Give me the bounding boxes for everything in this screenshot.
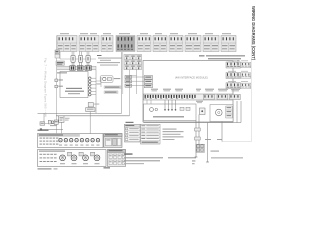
wire (195, 121, 197, 158)
notes heading (124, 153, 133, 154)
fan motor M1 (51, 121, 54, 124)
label (97, 83, 102, 86)
thermostat terminal (168, 100, 170, 109)
terminal T1 (89, 77, 92, 80)
transformer box (210, 105, 233, 122)
legend table (125, 124, 141, 142)
note block (97, 55, 102, 56)
note line 2 (168, 157, 196, 158)
receptacle J2 (77, 66, 83, 71)
terminal T6 (89, 93, 92, 96)
wire (240, 101, 242, 123)
line-voltage terminal board TB5 (38, 150, 107, 167)
relay cells (226, 106, 233, 118)
svg-text:Fig. 7 — Wiring Diagram Types: Fig. 7 — Wiring Diagram Types 560 – 4W (44, 58, 48, 117)
connector block PL1 (57, 36, 77, 52)
connector block PL3 (101, 36, 113, 52)
module input port 2 (144, 80, 152, 84)
wire (41, 129, 64, 131)
wire (122, 52, 124, 94)
accessory block (104, 134, 122, 148)
terminal block TB1 (55, 50, 59, 54)
wire bus vertical (95, 70, 97, 113)
connector row CN1 (226, 62, 241, 68)
terminal group (230, 94, 241, 99)
outdoor unit label (66, 88, 82, 89)
connector block PL7 (169, 36, 183, 52)
wire (89, 112, 91, 134)
fuse block F1 (68, 152, 72, 156)
wire (130, 75, 137, 77)
note tag (104, 167, 111, 168)
note text (199, 55, 205, 56)
relay coil K1 (125, 76, 132, 79)
connector block PL10 (221, 36, 236, 52)
fuse block F2 (79, 152, 83, 156)
svg-text:(4W INTERFACE MODULE): (4W INTERFACE MODULE) (175, 75, 208, 79)
inline plug (195, 137, 201, 140)
ground strap marks (192, 160, 195, 163)
module input port 3 (144, 84, 152, 88)
screw terminal 4 (75, 139, 78, 142)
receptacle J3 (85, 66, 91, 71)
defrost relay DR (100, 76, 113, 83)
4W interface module box U1 (143, 61, 233, 123)
contactor terminal 1 (60, 155, 66, 161)
note line 3 (211, 156, 243, 159)
wire code note (163, 128, 177, 131)
transformer TRAN (216, 109, 223, 116)
receptacle J1 (70, 66, 75, 71)
field power wire (38, 112, 122, 114)
screw terminal 3 (70, 139, 73, 142)
wire (60, 130, 62, 134)
low-voltage harness bus (57, 66, 96, 70)
diagram frame bottom-right edge (222, 141, 252, 143)
contactor terminal 4 (94, 155, 100, 161)
screw terminal 5 (80, 139, 83, 142)
label defrost timer (104, 91, 118, 94)
thermostat sensor (155, 108, 158, 111)
board cell labels 2 (40, 154, 43, 155)
outdoor unit enclosure (60, 72, 88, 98)
label (196, 100, 203, 103)
wire label (211, 150, 220, 153)
note tag left (38, 168, 52, 169)
thermostat terminal (164, 100, 166, 109)
aux contacts (180, 107, 184, 110)
svg-text:WIRING DIAGRAMS (CONT): WIRING DIAGRAMS (CONT) (251, 6, 256, 61)
strip labels (151, 89, 158, 90)
field terminal row 3 (241, 83, 251, 88)
wire (198, 115, 200, 145)
legend caption (126, 122, 134, 123)
component (200, 108, 206, 115)
wire (100, 77, 102, 87)
terminal T4 (89, 87, 92, 90)
plug connector P1 (71, 52, 73, 56)
label defrost thermostat (104, 86, 121, 89)
note line (124, 157, 163, 158)
wire (129, 70, 131, 116)
connector row CN3 (226, 83, 241, 89)
wire (121, 52, 123, 113)
connector row CN2 (226, 73, 241, 79)
stub wires from strip (146, 100, 148, 104)
field terminal row 2 (241, 73, 251, 78)
plug connector P3 (86, 52, 88, 56)
diagram frame right edge (251, 35, 253, 142)
label plate (56, 61, 64, 65)
board cell labels (40, 138, 42, 139)
wire drop to switch (43, 113, 45, 121)
legend table 2 (141, 124, 161, 144)
contactor C (54, 120, 58, 124)
contactor terminal 3 (83, 155, 89, 161)
module corner tag (237, 59, 240, 62)
transformer block (108, 150, 126, 167)
terminal group (217, 94, 228, 99)
wire terminal (195, 156, 198, 158)
connector block PL6 (153, 36, 167, 52)
screw terminal 1 (59, 139, 62, 142)
terminal strip TB3 (144, 94, 233, 100)
capacitor C1 (48, 120, 51, 124)
frame terminal L2 (55, 85, 58, 88)
thermostat terminal (171, 100, 173, 109)
connector block PL2 (79, 36, 99, 52)
contactor terminal 2 (71, 155, 77, 161)
label above board (38, 130, 49, 131)
terminal T5 (89, 90, 92, 93)
connector band header labels (60, 33, 69, 34)
terminal group (204, 94, 215, 99)
wire labels (205, 138, 211, 141)
inline plug (195, 128, 201, 131)
connector block PL9 (203, 36, 219, 52)
wire (60, 122, 62, 129)
marks (50, 124, 57, 127)
wire (59, 52, 61, 59)
wire (236, 101, 238, 123)
low-voltage terminal board TB4 (38, 134, 104, 148)
screw terminal 7 (91, 139, 94, 142)
wire (45, 123, 49, 125)
relay coil K3 (125, 84, 132, 87)
diagram frame left edge (56, 36, 58, 134)
junction box (88, 103, 93, 107)
outdoor unit label above (57, 72, 67, 73)
connector block PL8 (185, 36, 201, 52)
wire (136, 70, 138, 95)
screw terminal 6 (86, 139, 89, 142)
frame terminal L1 (55, 79, 58, 82)
terminal block TB2 (55, 54, 60, 58)
label 4W thermostat (153, 116, 184, 117)
relay coil K2 (125, 80, 132, 83)
connector block PL4 (116, 36, 135, 52)
wire (221, 122, 223, 142)
thermostat pilot lamp (150, 108, 154, 112)
fuse block F3 (91, 152, 95, 156)
4W thermostat box (144, 104, 197, 121)
field terminal row 1 (241, 62, 251, 67)
wire (51, 121, 53, 123)
disconnect box (59, 116, 64, 123)
terminal T3 (89, 84, 92, 87)
field power wire (56, 115, 130, 117)
thermostat terminal (175, 100, 177, 109)
wire (144, 122, 242, 124)
service switch (40, 122, 45, 125)
label (65, 117, 70, 120)
module input port 1 (144, 76, 152, 80)
connector grid PL11 (124, 55, 142, 70)
junction box (86, 108, 95, 112)
splice cluster (196, 144, 205, 152)
plug connector P2 (79, 52, 81, 56)
connector block PL5 (137, 36, 151, 52)
screw terminal 2 (64, 139, 67, 142)
wire (60, 58, 96, 60)
terminal T2 (89, 80, 92, 83)
screw terminal 8 (96, 139, 99, 142)
wire (207, 123, 209, 163)
